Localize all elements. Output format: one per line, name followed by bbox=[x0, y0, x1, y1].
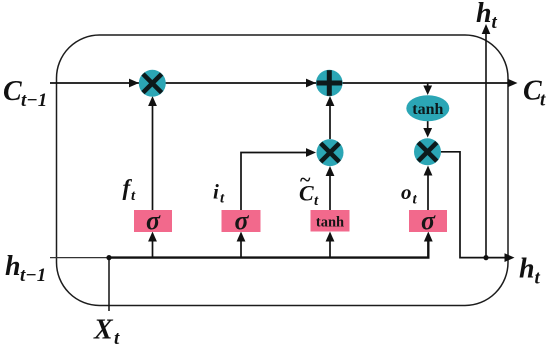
arrowhead h_t bottom right bbox=[505, 253, 515, 262]
svg-text:t−1: t−1 bbox=[20, 265, 46, 286]
node: junction on output line bbox=[483, 255, 488, 260]
label h_{t-1} bbox=[5, 251, 46, 286]
arrowhead into multiply gate 2 (left) bbox=[306, 148, 316, 157]
svg-text:i: i bbox=[213, 180, 219, 204]
multiply gate 3 (output) bbox=[414, 138, 441, 165]
arrowhead into tanh box bbox=[326, 232, 335, 242]
wire: branch from C line down to tanh ellipse bbox=[427, 83, 429, 92]
svg-text:X: X bbox=[93, 315, 114, 346]
wire: tanh box output up to multiply gate 2 bbox=[329, 169, 331, 210]
sigma box f bbox=[134, 206, 172, 235]
wire: bottom concat line (thick) bbox=[109, 236, 428, 258]
svg-text:σ: σ bbox=[234, 206, 249, 235]
svg-text:t−1: t−1 bbox=[21, 90, 47, 111]
arrowhead into multiply gate 1 (left, on C line) bbox=[129, 79, 139, 88]
sigma box o bbox=[409, 206, 447, 235]
svg-text:C: C bbox=[3, 76, 22, 107]
arrowhead into o-sigma box bbox=[424, 232, 433, 242]
wire: h_{t-1} thin segment bbox=[50, 257, 109, 259]
add gate bbox=[316, 70, 343, 97]
wire: tanh ellipse down to multiply gate 3 bbox=[427, 121, 429, 133]
arrowhead into multiply gate 3 (top) bbox=[423, 128, 432, 138]
tanh box (candidate) bbox=[311, 210, 350, 232]
label i_t bbox=[213, 180, 225, 207]
wire: i-gate riser from bottom line bbox=[240, 236, 242, 258]
arrowhead into multiply gate 3 (bottom) bbox=[424, 166, 433, 176]
wire: multiply gate 2 output up to add gate bbox=[329, 99, 331, 139]
wire: multiply gate 3 output to h_t (right, down, right) bbox=[441, 152, 510, 258]
label X_t bbox=[93, 315, 120, 346]
arrowhead into tanh ellipse bbox=[423, 86, 432, 96]
label o_t bbox=[401, 180, 418, 208]
wire: f-sigma output up to multiply bbox=[152, 99, 154, 210]
svg-text:t: t bbox=[540, 90, 546, 111]
wire: X_t input vertical bbox=[108, 258, 110, 311]
wire: i-sigma output up and right to multiply gate 2 bbox=[241, 153, 312, 211]
svg-text:tanh: tanh bbox=[412, 101, 443, 118]
arrowhead into f-sigma box bbox=[148, 232, 157, 242]
wire: f-gate riser from bottom line bbox=[152, 236, 154, 258]
wire: h_t vertical riser to top output bbox=[485, 30, 487, 258]
cell boundary (rounded rectangle) bbox=[57, 35, 509, 306]
svg-text:h: h bbox=[476, 0, 492, 29]
wire: o-sigma output up to multiply gate 3 bbox=[427, 169, 429, 210]
svg-text:h: h bbox=[5, 251, 21, 282]
label h_t bottom right bbox=[519, 254, 541, 289]
arrowhead into multiply gate 2 (bottom) bbox=[326, 166, 335, 176]
wire: cell-state line C (top horizontal) bbox=[50, 82, 514, 84]
svg-text:t: t bbox=[114, 328, 120, 346]
arrowhead h_t top bbox=[482, 24, 491, 34]
wire: candidate tanh riser from bottom line bbox=[329, 236, 331, 258]
svg-text:h: h bbox=[519, 254, 535, 285]
node: junction X_t / h_{t-1} bbox=[106, 255, 111, 260]
svg-text:t: t bbox=[492, 12, 498, 33]
label C_t bbox=[523, 76, 546, 111]
svg-text:σ: σ bbox=[146, 206, 161, 235]
label C~_t (candidate) bbox=[299, 169, 319, 209]
tanh ellipse bbox=[406, 95, 449, 121]
svg-text:tanh: tanh bbox=[316, 215, 344, 231]
arrowhead into add gate (bottom) bbox=[326, 96, 335, 106]
label f_t bbox=[123, 175, 137, 204]
sigma box i bbox=[222, 206, 261, 235]
svg-text:o: o bbox=[401, 180, 412, 204]
label C_{t-1} bbox=[3, 76, 47, 111]
multiply gate 1 (forget) bbox=[139, 70, 166, 97]
svg-text:σ: σ bbox=[421, 206, 436, 235]
arrowhead into multiply gate 1 bbox=[148, 96, 157, 106]
arrowhead C_t right bbox=[508, 79, 518, 88]
svg-text:~: ~ bbox=[300, 169, 311, 191]
svg-text:t: t bbox=[535, 268, 541, 289]
multiply gate 2 (input) bbox=[317, 139, 344, 166]
arrowhead into i-sigma box bbox=[237, 232, 246, 242]
label h_t top bbox=[476, 0, 498, 33]
arrowhead into add gate (left, on C line) bbox=[306, 79, 316, 88]
